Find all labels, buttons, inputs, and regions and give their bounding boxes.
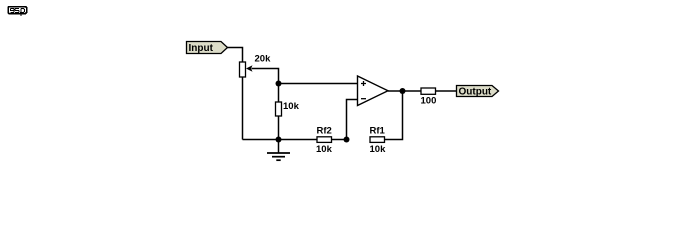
wire node A to op-amp + input	[279, 83, 358, 85]
ESP logo	[8, 7, 27, 17]
resistor 10k (vertical)	[276, 102, 282, 116]
Input flag	[187, 42, 228, 55]
potentiometer wiper arrow	[246, 65, 253, 72]
wire op-amp output to node C	[388, 90, 421, 92]
node A junction dot	[276, 81, 282, 87]
wire node B to op-amp - input	[347, 100, 358, 140]
node B junction dot	[344, 137, 350, 143]
ground junction dot	[276, 137, 282, 143]
svg-text:10k: 10k	[370, 144, 387, 155]
svg-text:10k: 10k	[316, 144, 333, 155]
wire node A to resistor 10k	[278, 84, 280, 103]
svg-text:10k: 10k	[283, 101, 300, 112]
svg-text:Rf1: Rf1	[370, 126, 386, 137]
svg-text:100: 100	[421, 96, 437, 107]
wire pot bottom to ground rail	[242, 77, 244, 140]
svg-text:Output: Output	[459, 87, 492, 98]
svg-text:Input: Input	[189, 43, 214, 54]
wire wiper to node A	[252, 69, 279, 84]
resistor 100	[421, 88, 436, 94]
ground	[267, 140, 290, 161]
Output flag	[457, 86, 499, 98]
resistor Rf1	[370, 137, 385, 143]
wire input to pot top	[228, 48, 243, 63]
resistor Rf2	[317, 137, 332, 143]
wire 100 to output flag	[436, 90, 457, 92]
bottom rail wire	[243, 139, 318, 141]
wire Rf1 to output node	[385, 91, 403, 140]
wire 10k to ground rail	[278, 116, 280, 140]
potentiometer 20k body	[240, 62, 246, 77]
op-amp U1	[358, 76, 389, 106]
svg-text:Rf2: Rf2	[317, 126, 332, 137]
node C junction dot	[400, 88, 406, 94]
svg-text:20k: 20k	[255, 54, 272, 65]
wire Rf2 to node B	[332, 139, 347, 141]
